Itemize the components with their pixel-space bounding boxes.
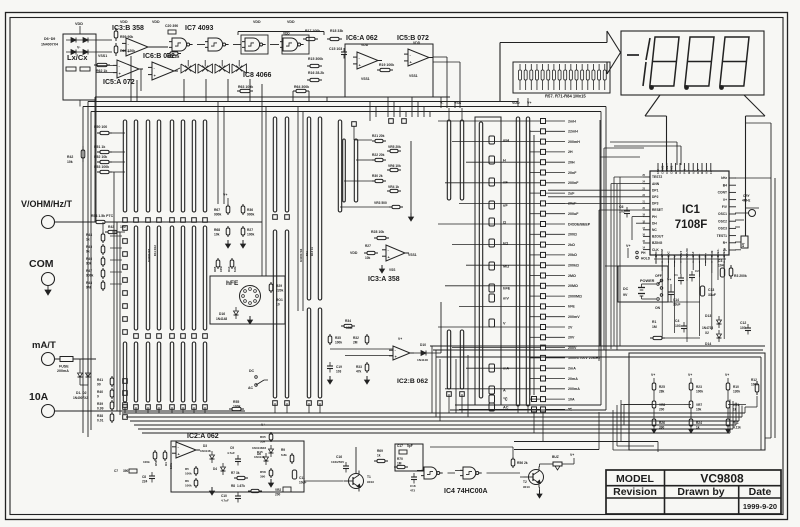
svg-text:0.99: 0.99 bbox=[97, 407, 104, 411]
svg-text:C11: C11 bbox=[299, 476, 305, 480]
svg-text:DP1: DP1 bbox=[652, 188, 659, 192]
svg-text:R13 1k: R13 1k bbox=[310, 247, 314, 256]
svg-text:B2: B2 bbox=[687, 170, 691, 174]
svg-text:130k: 130k bbox=[733, 390, 740, 394]
svg-text:R+: R+ bbox=[723, 241, 727, 245]
svg-text:A2: A2 bbox=[691, 170, 695, 174]
svg-text:R25: R25 bbox=[659, 385, 665, 389]
svg-text:R27: R27 bbox=[365, 244, 371, 248]
svg-text:Drawn by: Drawn by bbox=[677, 486, 724, 498]
svg-text:2H: 2H bbox=[568, 150, 573, 154]
svg-text:200nF: 200nF bbox=[568, 181, 579, 185]
svg-text:2000MΩ: 2000MΩ bbox=[568, 294, 582, 298]
svg-text:4.7uF: 4.7uF bbox=[227, 451, 235, 455]
svg-text:R50 100: R50 100 bbox=[94, 125, 107, 129]
svg-text:R64 300k: R64 300k bbox=[294, 85, 309, 89]
svg-text:103: 103 bbox=[740, 326, 746, 330]
svg-text:100k: 100k bbox=[169, 462, 173, 469]
svg-text:1N4007X2: 1N4007X2 bbox=[147, 248, 151, 262]
svg-text:C16: C16 bbox=[336, 455, 342, 459]
svg-text:V+: V+ bbox=[398, 337, 402, 341]
svg-text:10k: 10k bbox=[365, 256, 371, 260]
svg-text:VSS1: VSS1 bbox=[361, 77, 370, 81]
svg-text:EOC: EOC bbox=[666, 250, 670, 257]
svg-text:1M: 1M bbox=[652, 325, 657, 329]
svg-text:B1: B1 bbox=[674, 170, 678, 174]
svg-text:1N4148: 1N4148 bbox=[200, 449, 211, 453]
svg-text:AC: AC bbox=[248, 386, 254, 390]
svg-text:R67: R67 bbox=[214, 208, 220, 212]
svg-text:VSS: VSS bbox=[389, 268, 395, 272]
svg-text:V-: V- bbox=[673, 255, 677, 258]
svg-text:1k: 1k bbox=[377, 454, 381, 458]
svg-text:R8: R8 bbox=[231, 484, 235, 488]
svg-text:A3: A3 bbox=[705, 170, 709, 174]
svg-text:200Ω: 200Ω bbox=[568, 233, 577, 237]
svg-text:R22 20k: R22 20k bbox=[372, 153, 385, 157]
svg-text:R44: R44 bbox=[86, 233, 92, 237]
svg-text:C19: C19 bbox=[336, 365, 342, 369]
svg-text:ON: ON bbox=[655, 306, 661, 310]
svg-text:D11: D11 bbox=[305, 251, 309, 256]
svg-text:R52 10k: R52 10k bbox=[94, 155, 107, 159]
svg-text:R69: R69 bbox=[377, 449, 383, 453]
svg-text:kHz: kHz bbox=[721, 176, 727, 180]
svg-text:R35: R35 bbox=[335, 336, 341, 340]
svg-text:9k: 9k bbox=[86, 250, 90, 254]
svg-text:CREF+: CREF+ bbox=[722, 248, 726, 258]
svg-text:473: 473 bbox=[410, 489, 415, 493]
svg-text:104: 104 bbox=[718, 264, 724, 268]
svg-text:R6: R6 bbox=[185, 479, 189, 483]
svg-text:VSS1: VSS1 bbox=[408, 253, 417, 257]
svg-text:C3: C3 bbox=[718, 259, 722, 263]
svg-text:OSC2: OSC2 bbox=[718, 219, 727, 223]
svg-text:900k: 900k bbox=[247, 213, 255, 217]
svg-text:COM1: COM1 bbox=[669, 165, 673, 174]
svg-text:VR7: VR7 bbox=[696, 403, 702, 407]
svg-text:4.7uF: 4.7uF bbox=[221, 499, 229, 503]
svg-text:OFF: OFF bbox=[655, 274, 662, 278]
svg-text:DH: DH bbox=[652, 221, 657, 225]
svg-text:COM3: COM3 bbox=[661, 165, 665, 174]
svg-text:R36: R36 bbox=[247, 208, 253, 212]
svg-text:TEST2: TEST2 bbox=[652, 175, 662, 179]
svg-text:T1: T1 bbox=[367, 475, 371, 479]
svg-text:D13: D13 bbox=[705, 314, 711, 318]
svg-text:ANN: ANN bbox=[652, 182, 660, 186]
svg-text:R56 2k: R56 2k bbox=[517, 461, 528, 465]
svg-text:47k: 47k bbox=[356, 370, 362, 374]
svg-text:Date: Date bbox=[749, 486, 772, 498]
svg-text:R23: R23 bbox=[696, 385, 702, 389]
svg-text:BZOUT: BZOUT bbox=[652, 235, 663, 239]
svg-text:R18 33k: R18 33k bbox=[330, 29, 343, 33]
svg-text:OSC3: OSC3 bbox=[718, 227, 727, 231]
svg-text:R32: R32 bbox=[353, 336, 359, 340]
svg-text:D14: D14 bbox=[705, 342, 711, 346]
svg-text:1N4007X2: 1N4007X2 bbox=[73, 396, 88, 400]
svg-text:R39: R39 bbox=[97, 402, 103, 406]
svg-text:R70: R70 bbox=[397, 457, 403, 461]
svg-text:200mA: 200mA bbox=[568, 387, 580, 391]
svg-text:PH: PH bbox=[652, 215, 657, 219]
svg-text:VDD: VDD bbox=[283, 32, 290, 36]
svg-text:CRY: CRY bbox=[743, 194, 750, 198]
svg-text:2M: 2M bbox=[353, 341, 358, 345]
svg-text:103: 103 bbox=[336, 370, 342, 374]
svg-text:BUZ: BUZ bbox=[552, 455, 559, 459]
svg-text:100k: 100k bbox=[247, 233, 255, 237]
svg-text:R21 20k: R21 20k bbox=[372, 134, 385, 138]
svg-text:R45: R45 bbox=[86, 245, 92, 249]
svg-text:9013: 9013 bbox=[367, 480, 374, 484]
svg-text:F/V: F/V bbox=[722, 205, 728, 209]
svg-text:D15: D15 bbox=[257, 450, 263, 454]
svg-text:990k: 990k bbox=[214, 213, 222, 217]
svg-text:hFE: hFE bbox=[226, 280, 239, 287]
svg-text:C7: C7 bbox=[114, 469, 118, 473]
svg-text:mA/T: mA/T bbox=[32, 340, 56, 351]
svg-text:R58: R58 bbox=[260, 470, 266, 474]
svg-text:20MΩ: 20MΩ bbox=[568, 284, 578, 288]
svg-text:5pF: 5pF bbox=[407, 444, 413, 448]
svg-text:BZING: BZING bbox=[652, 241, 663, 245]
svg-text:0.01: 0.01 bbox=[97, 419, 104, 423]
svg-text:R34: R34 bbox=[345, 319, 351, 323]
svg-text:9M: 9M bbox=[86, 286, 91, 290]
svg-text:IN+: IN+ bbox=[704, 253, 708, 258]
svg-text:R5: R5 bbox=[185, 467, 189, 471]
svg-text:EQ: EQ bbox=[741, 242, 745, 247]
svg-text:C1: C1 bbox=[674, 273, 678, 277]
svg-text:F/N: F/N bbox=[656, 169, 660, 174]
svg-text:200mV: 200mV bbox=[568, 315, 580, 319]
svg-text:100k: 100k bbox=[696, 390, 703, 394]
svg-text:100k: 100k bbox=[185, 484, 192, 488]
svg-text:R7 3k: R7 3k bbox=[231, 471, 240, 475]
svg-text:V+: V+ bbox=[626, 244, 631, 248]
svg-text:D6~D9: D6~D9 bbox=[44, 37, 55, 41]
svg-text:9V: 9V bbox=[623, 293, 628, 297]
svg-text:V/OHM/Hz/T: V/OHM/Hz/T bbox=[21, 199, 73, 209]
svg-text:R63 100k: R63 100k bbox=[238, 85, 253, 89]
svg-text:DP2: DP2 bbox=[652, 195, 659, 199]
svg-text:10: 10 bbox=[276, 303, 280, 307]
svg-text:VSS1: VSS1 bbox=[409, 74, 418, 78]
svg-text:R58: R58 bbox=[154, 460, 158, 466]
svg-text:224: 224 bbox=[142, 480, 148, 484]
svg-text:R28 10k: R28 10k bbox=[371, 230, 384, 234]
svg-text:2kΩ: 2kΩ bbox=[568, 243, 575, 247]
svg-text:C18: C18 bbox=[410, 484, 416, 488]
svg-text:2V: 2V bbox=[568, 325, 573, 329]
svg-text:C4: C4 bbox=[675, 319, 679, 323]
svg-text:R17 100k: R17 100k bbox=[305, 29, 320, 33]
svg-text:100: 100 bbox=[120, 225, 126, 229]
svg-text:1N4148: 1N4148 bbox=[216, 317, 227, 321]
svg-text:POWER: POWER bbox=[640, 279, 655, 283]
svg-text:IN-: IN- bbox=[697, 254, 701, 258]
svg-text:100k: 100k bbox=[143, 460, 150, 464]
svg-text:IC6:A 062: IC6:A 062 bbox=[346, 35, 378, 42]
svg-text:VDD: VDD bbox=[152, 20, 160, 24]
svg-text:VDD: VDD bbox=[287, 20, 295, 24]
svg-text:VDD: VDD bbox=[75, 22, 83, 26]
svg-text:T2: T2 bbox=[523, 480, 527, 484]
svg-text:D-N: D-N bbox=[696, 169, 700, 174]
svg-text:VSS1: VSS1 bbox=[98, 54, 107, 58]
svg-text:2mH: 2mH bbox=[568, 119, 576, 123]
svg-text:20kΩ: 20kΩ bbox=[568, 253, 577, 257]
svg-text:Revision: Revision bbox=[613, 486, 657, 498]
svg-text:R43: R43 bbox=[108, 225, 114, 229]
svg-text:200: 200 bbox=[659, 408, 665, 412]
svg-text:90k: 90k bbox=[86, 262, 92, 266]
svg-text:R26: R26 bbox=[659, 421, 665, 425]
svg-text:C9: C9 bbox=[230, 446, 234, 450]
svg-text:R47: R47 bbox=[86, 269, 92, 273]
svg-text:C8: C8 bbox=[142, 475, 146, 479]
svg-text:200V: 200V bbox=[568, 346, 577, 350]
svg-text:V+: V+ bbox=[725, 373, 729, 377]
svg-text:R9: R9 bbox=[281, 448, 285, 452]
svg-text:VDD: VDD bbox=[512, 101, 520, 105]
svg-text:28k: 28k bbox=[659, 390, 665, 394]
svg-text:7108F: 7108F bbox=[675, 219, 708, 231]
svg-text:R57. R71-R84 1Mx15: R57. R71-R84 1Mx15 bbox=[545, 94, 586, 99]
svg-text:IC3:A 358: IC3:A 358 bbox=[368, 276, 400, 283]
svg-text:IC7 4093: IC7 4093 bbox=[185, 25, 214, 32]
svg-text:R42: R42 bbox=[67, 155, 73, 159]
svg-text:R3 200k: R3 200k bbox=[734, 274, 747, 278]
svg-text:C14: C14 bbox=[673, 298, 679, 302]
svg-text:9: 9 bbox=[97, 395, 99, 399]
svg-text:FUSE: FUSE bbox=[59, 365, 69, 369]
svg-text:20H: 20H bbox=[568, 161, 575, 165]
svg-text:F3: F3 bbox=[709, 170, 713, 174]
svg-text:1N4148: 1N4148 bbox=[417, 358, 428, 362]
svg-text:VINT: VINT bbox=[679, 251, 683, 258]
svg-text:C15 103: C15 103 bbox=[329, 47, 342, 51]
svg-text:Lx/Cx: Lx/Cx bbox=[67, 53, 88, 62]
svg-text:A1: A1 bbox=[678, 170, 682, 174]
svg-text:VR8: VR8 bbox=[659, 403, 665, 407]
svg-text:200uF: 200uF bbox=[568, 212, 579, 216]
svg-text:22mH: 22mH bbox=[568, 130, 578, 134]
svg-text:C13: C13 bbox=[708, 288, 714, 292]
svg-text:BZDM: BZDM bbox=[660, 249, 664, 258]
svg-text:C17: C17 bbox=[397, 444, 403, 448]
svg-text:10k: 10k bbox=[67, 160, 73, 164]
svg-text:V+: V+ bbox=[688, 373, 692, 377]
svg-text:20mA: 20mA bbox=[568, 377, 578, 381]
svg-text:VR3 500: VR3 500 bbox=[374, 201, 387, 205]
svg-text:10k: 10k bbox=[696, 408, 702, 412]
svg-text:VR6 10k: VR6 10k bbox=[388, 164, 401, 168]
svg-text:C20 390: C20 390 bbox=[165, 24, 178, 28]
svg-text:2MΩ: 2MΩ bbox=[568, 274, 576, 278]
svg-text:VR4 1k: VR4 1k bbox=[388, 185, 399, 189]
svg-text:D4: D4 bbox=[213, 467, 217, 471]
svg-text:RESET: RESET bbox=[652, 208, 663, 212]
svg-text:R27: R27 bbox=[247, 228, 253, 232]
svg-text:AC: AC bbox=[503, 406, 509, 410]
svg-text:COM: COM bbox=[710, 250, 714, 257]
svg-text:V+: V+ bbox=[651, 373, 655, 377]
svg-text:1999-9-20: 1999-9-20 bbox=[743, 502, 777, 511]
svg-text:D3: D3 bbox=[203, 444, 207, 448]
svg-text:hFE: hFE bbox=[568, 305, 575, 309]
svg-text:9013: 9013 bbox=[523, 485, 530, 489]
svg-text:VDD: VDD bbox=[350, 251, 358, 255]
svg-text:100k: 100k bbox=[185, 472, 192, 476]
svg-text:900k: 900k bbox=[86, 274, 94, 278]
svg-text:CONT: CONT bbox=[718, 191, 727, 195]
svg-text:D11 D12: D11 D12 bbox=[153, 245, 157, 256]
svg-text:220k: 220k bbox=[276, 289, 284, 293]
svg-text:DC: DC bbox=[249, 369, 255, 373]
svg-text:R29: R29 bbox=[276, 284, 282, 288]
svg-text:C12: C12 bbox=[740, 321, 746, 325]
svg-text:R41: R41 bbox=[97, 378, 103, 382]
svg-text:COM: COM bbox=[29, 258, 54, 270]
svg-text:COM2: COM2 bbox=[665, 165, 669, 174]
svg-text:hFE: hFE bbox=[503, 287, 511, 291]
svg-text:VBUFF: VBUFF bbox=[685, 248, 689, 258]
svg-text:B4: B4 bbox=[723, 183, 727, 187]
svg-text:R38: R38 bbox=[97, 414, 103, 418]
svg-text:103: 103 bbox=[675, 324, 681, 328]
svg-text:R19 100k: R19 100k bbox=[379, 63, 394, 67]
svg-text:PH: PH bbox=[641, 251, 646, 255]
svg-text:V+: V+ bbox=[570, 453, 574, 457]
svg-text:HOLD: HOLD bbox=[641, 257, 651, 261]
svg-text:1N4007X2: 1N4007X2 bbox=[299, 248, 303, 262]
svg-text:B3: B3 bbox=[700, 170, 704, 174]
svg-text:IC3:B 358: IC3:B 358 bbox=[112, 25, 144, 32]
svg-text:IC2:B 062: IC2:B 062 bbox=[397, 378, 428, 385]
svg-text:IC1: IC1 bbox=[682, 204, 701, 216]
svg-text:C2: C2 bbox=[695, 269, 699, 273]
svg-text:uF: uF bbox=[503, 204, 508, 208]
svg-text:℃: ℃ bbox=[503, 397, 508, 402]
svg-text:R15 300k: R15 300k bbox=[308, 57, 323, 61]
svg-text:R51 1k: R51 1k bbox=[94, 145, 105, 149]
svg-text:NC: NC bbox=[652, 228, 657, 232]
svg-text:10k: 10k bbox=[214, 233, 220, 237]
svg-text:IC2:A 062: IC2:A 062 bbox=[187, 433, 219, 440]
svg-text:R10: R10 bbox=[733, 385, 739, 389]
svg-text:OSC1: OSC1 bbox=[718, 212, 727, 216]
svg-text:D1. D2: D1. D2 bbox=[76, 391, 87, 395]
svg-text:390: 390 bbox=[260, 475, 265, 479]
svg-text:90: 90 bbox=[97, 383, 101, 387]
svg-text:IC5:A 072: IC5:A 072 bbox=[103, 79, 135, 86]
svg-text:100k: 100k bbox=[335, 341, 342, 345]
svg-text:P-N: P-N bbox=[683, 169, 687, 174]
svg-text:10A: 10A bbox=[568, 397, 575, 401]
svg-text:C10: C10 bbox=[221, 494, 227, 498]
svg-text:R65: R65 bbox=[260, 435, 266, 439]
svg-text:BZD: BZD bbox=[654, 252, 658, 258]
svg-text:R68: R68 bbox=[214, 228, 220, 232]
svg-text:33k: 33k bbox=[260, 440, 265, 444]
svg-text:20nF: 20nF bbox=[568, 171, 577, 175]
svg-text:RO1: RO1 bbox=[276, 298, 283, 302]
svg-text:R33: R33 bbox=[356, 365, 362, 369]
svg-text:D16: D16 bbox=[219, 312, 225, 316]
svg-text:390: 390 bbox=[123, 469, 129, 473]
svg-text:R16 28.2k: R16 28.2k bbox=[308, 71, 324, 75]
svg-text:R30 2k: R30 2k bbox=[372, 174, 383, 178]
svg-text:IC4 74HC00A: IC4 74HC00A bbox=[444, 488, 488, 495]
svg-text:MODEL: MODEL bbox=[616, 473, 655, 485]
svg-text:DP3: DP3 bbox=[652, 202, 659, 206]
svg-text:CLK: CLK bbox=[652, 248, 659, 252]
svg-text:CAZ: CAZ bbox=[691, 251, 695, 257]
svg-text:CREF-: CREF- bbox=[716, 249, 720, 258]
svg-text:R12: R12 bbox=[751, 378, 757, 382]
svg-text:200mA: 200mA bbox=[57, 369, 69, 373]
svg-text:R48: R48 bbox=[86, 281, 92, 285]
svg-text:R55: R55 bbox=[233, 400, 239, 404]
svg-text:200mH: 200mH bbox=[568, 140, 580, 144]
svg-text:TEST1: TEST1 bbox=[717, 234, 727, 238]
svg-text:1N4148: 1N4148 bbox=[254, 455, 265, 459]
svg-text:R1: R1 bbox=[652, 320, 656, 324]
svg-text:6.8k: 6.8k bbox=[281, 453, 287, 457]
svg-text:VC9808: VC9808 bbox=[700, 472, 744, 486]
svg-text:VDD: VDD bbox=[253, 20, 261, 24]
svg-text:DIODE/BEEP: DIODE/BEEP bbox=[568, 222, 591, 226]
svg-text:R46: R46 bbox=[86, 257, 92, 261]
svg-text:VDD: VDD bbox=[120, 20, 128, 24]
svg-text:1N4007X4: 1N4007X4 bbox=[41, 43, 58, 47]
svg-text:R53 100k: R53 100k bbox=[94, 165, 109, 169]
svg-text:V+: V+ bbox=[723, 198, 727, 202]
svg-text:R54 1.5k PTC: R54 1.5k PTC bbox=[91, 214, 114, 218]
svg-text:4MHz: 4MHz bbox=[742, 199, 751, 203]
svg-text:R4: R4 bbox=[164, 462, 168, 466]
svg-text:2mA: 2mA bbox=[568, 367, 576, 371]
svg-text:X2: X2 bbox=[705, 331, 709, 335]
svg-text:10A: 10A bbox=[29, 391, 49, 403]
svg-text:200: 200 bbox=[275, 493, 281, 497]
svg-text:104/250V: 104/250V bbox=[331, 460, 345, 464]
svg-text:VR2: VR2 bbox=[275, 488, 281, 492]
svg-text:R24: R24 bbox=[696, 421, 702, 425]
svg-text:DC: DC bbox=[623, 287, 629, 291]
svg-text:mV: mV bbox=[503, 297, 509, 301]
svg-text:33uF: 33uF bbox=[673, 303, 680, 307]
svg-text:V+: V+ bbox=[667, 278, 671, 282]
svg-text:20V: 20V bbox=[568, 336, 575, 340]
svg-text:1.67k: 1.67k bbox=[237, 484, 245, 488]
svg-text:IC8 4066: IC8 4066 bbox=[243, 72, 272, 79]
svg-text:4.11k: 4.11k bbox=[733, 426, 741, 430]
svg-text:200kΩ: 200kΩ bbox=[568, 264, 579, 268]
svg-text:VR5 20k: VR5 20k bbox=[388, 145, 401, 149]
svg-text:2uF: 2uF bbox=[568, 191, 575, 195]
svg-text:R40: R40 bbox=[97, 390, 103, 394]
svg-text:D10: D10 bbox=[420, 343, 426, 347]
svg-text:1k: 1k bbox=[86, 238, 90, 242]
